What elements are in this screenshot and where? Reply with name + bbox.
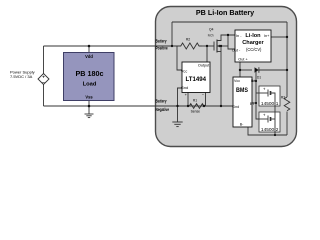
svg-text:Negative: Negative <box>156 107 170 112</box>
node: B+ tap <box>255 80 257 82</box>
node: charge bus at pack plus <box>255 69 257 71</box>
node: load Vdd tap <box>88 45 91 48</box>
node: R2 right / output / gate <box>206 45 208 47</box>
wire: BMS BT stub <box>252 102 256 104</box>
svg-text:R3: R3 <box>281 95 285 99</box>
wire: Vcc drop to LT1494 <box>177 46 182 70</box>
wire: top positive rail (supply to pack) <box>44 45 179 47</box>
wire: diode to right rail <box>259 69 287 71</box>
wire: LT1494 + input pin <box>187 93 189 107</box>
wire: LT1494 - input pin <box>205 93 207 107</box>
node: R1 left <box>187 105 189 107</box>
wire: mosfet source <box>217 51 221 53</box>
svg-text:Out -: Out - <box>232 49 241 53</box>
wire: right rail lower <box>286 112 288 136</box>
svg-text:Output: Output <box>198 64 210 68</box>
wire: load Vdd drop <box>88 46 90 53</box>
wire: charger Out+ down to BMS Vcc <box>239 62 241 77</box>
svg-text:Vcc: Vcc <box>234 79 240 83</box>
wire: LT1494 gnd to negative rail <box>178 88 183 106</box>
svg-text:Out +: Out + <box>238 58 248 62</box>
power supply source V1 <box>38 74 49 87</box>
wire: R2 right node to gate <box>200 45 214 47</box>
node: charge bus at right rail <box>286 69 288 71</box>
node: In+ at right rail <box>286 36 288 38</box>
diode D1 <box>255 67 262 79</box>
wire: charge bus to diode <box>240 69 252 71</box>
svg-text:In -: In - <box>236 34 242 38</box>
wire: load Vss drop <box>88 101 90 107</box>
wire: In- to Out- vertical <box>228 35 235 49</box>
resistor R1 (sense) <box>188 99 205 114</box>
wire: body tie <box>221 45 228 47</box>
svg-text:LT1494: LT1494 <box>186 76 207 83</box>
ground (pack negative) <box>172 106 182 127</box>
svg-text:N-Ch: N-Ch <box>208 34 214 38</box>
svg-text:Battery: Battery <box>156 39 168 44</box>
battery cell 14500-2 <box>259 112 280 132</box>
svg-text:Positive: Positive <box>156 46 169 51</box>
svg-text:+: + <box>263 113 266 118</box>
node: cell2 neg at bottom wire <box>274 134 276 136</box>
wire: BMS B+ stub <box>252 80 256 82</box>
svg-text:Vss: Vss <box>85 94 93 99</box>
node: source body tie <box>220 45 222 47</box>
svg-text:7.5VDC / 3A: 7.5VDC / 3A <box>10 74 33 79</box>
svg-text:(CC/CV): (CC/CV) <box>246 47 262 52</box>
transistor Q4 N-Ch mosfet <box>208 28 221 53</box>
load block PB 180c <box>64 53 115 101</box>
svg-text:Sense: Sense <box>191 109 201 113</box>
wire: supply top lead <box>43 46 45 74</box>
wire: output pin drop <box>206 46 208 62</box>
battery cell 14500-1 <box>259 86 280 106</box>
wire: supply bottom lead <box>43 84 45 106</box>
svg-text:B+: B+ <box>251 79 256 83</box>
wire: cell1 left pin <box>256 92 259 94</box>
op-amp LT1494 <box>181 62 210 97</box>
svg-text:BMS: BMS <box>236 87 249 94</box>
svg-text:+: + <box>263 87 266 92</box>
svg-text:R1: R1 <box>193 99 197 103</box>
node: load Vss tap <box>88 105 91 108</box>
BMS block <box>232 77 255 127</box>
node: source / negative rail <box>220 105 222 107</box>
wire: mosfet drain to charger In- <box>217 35 235 41</box>
svg-text:Vcc: Vcc <box>181 70 187 74</box>
svg-text:Battery: Battery <box>156 99 168 104</box>
svg-text:PB Li-Ion Battery: PB Li-Ion Battery <box>196 8 254 17</box>
wire: B- bottom return <box>248 127 287 135</box>
Li-Ion charger block <box>232 30 271 62</box>
svg-text:D1: D1 <box>257 75 261 79</box>
node: charge bus at Out+ <box>239 69 241 71</box>
svg-text:R2: R2 <box>186 38 190 42</box>
wire: source down to negative rail <box>220 46 222 106</box>
ground (load) <box>85 106 94 118</box>
battery pack enclosure <box>156 7 297 147</box>
svg-text:Q4: Q4 <box>209 28 214 32</box>
svg-text:Charger: Charger <box>242 40 264 46</box>
svg-text:+: + <box>42 75 45 80</box>
node: BT tap <box>255 102 257 104</box>
svg-text:14500-2: 14500-2 <box>261 127 279 132</box>
wire: right rail upper <box>286 22 288 97</box>
svg-text:BT: BT <box>250 102 255 106</box>
node: inner loop / positive <box>171 45 173 47</box>
svg-text:Gnd: Gnd <box>232 105 239 109</box>
resistor R3 <box>281 95 290 110</box>
svg-text:In+: In+ <box>264 34 270 38</box>
wire: cell series link right side <box>271 93 276 135</box>
svg-text:Vdd: Vdd <box>85 54 93 59</box>
node: gnd drop <box>176 105 178 107</box>
wire: inner loop top-left vertical <box>171 22 173 46</box>
wire: bottom negative rail (supply to pack) <box>44 105 234 107</box>
node: R1 right <box>203 105 205 107</box>
svg-text:PB 180c: PB 180c <box>76 69 104 78</box>
wire: cell2 right lead <box>271 118 276 120</box>
svg-text:Gnd: Gnd <box>181 86 188 90</box>
svg-text:−: − <box>42 81 45 86</box>
svg-text:14500-1: 14500-1 <box>261 101 279 106</box>
wire: inner top rail <box>172 21 287 23</box>
resistor R2 <box>178 38 202 49</box>
wire: pack plus vertical to cells <box>256 70 259 119</box>
svg-text:Load: Load <box>83 81 97 87</box>
node: In- wire tap <box>227 34 229 36</box>
svg-text:Li-Ion: Li-Ion <box>245 33 261 39</box>
wire: charger In+ to right rail <box>271 36 287 38</box>
